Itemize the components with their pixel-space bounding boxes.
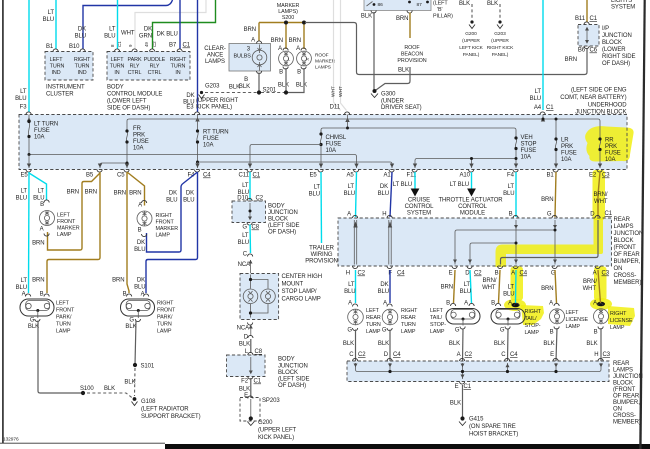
- svg-text:IN: IN: [114, 70, 119, 76]
- svg-text:DK: DK: [380, 282, 388, 288]
- svg-text:BRN: BRN: [67, 190, 79, 196]
- bottom chevrons: [353, 266, 601, 269]
- CHMSL internal wiring: [251, 275, 269, 318]
- fuse CHMSL: [320, 134, 321, 168]
- svg-text:LEFT: LEFT: [50, 57, 64, 63]
- svg-text:RIGHT: RIGHT: [156, 213, 173, 219]
- svg-text:PRK: PRK: [605, 144, 617, 150]
- wire BLK dashed to G203: [499, 4, 501, 19]
- svg-text:BLK: BLK: [124, 380, 135, 386]
- svg-text:FRONT: FRONT: [57, 219, 76, 225]
- left border bar: [2, 0, 4, 443]
- ground G200 bottom: [249, 416, 253, 420]
- svg-text:STOP-: STOP-: [525, 323, 541, 329]
- svg-text:BLU: BLU: [134, 285, 145, 291]
- highlight wire inside rear junction block: [496, 218, 604, 267]
- svg-text:BRN/: BRN/: [583, 279, 597, 285]
- svg-text:HOIST BRACKET): HOIST BRACKET): [469, 432, 518, 438]
- left tail/stop lamp: [430, 303, 480, 347]
- svg-text:G203: G203: [205, 84, 220, 90]
- svg-text:(LEFT: (LEFT: [433, 1, 448, 7]
- svg-text:DK: DK: [144, 27, 152, 33]
- svg-text:C4: C4: [397, 271, 405, 277]
- ground G203 left: [200, 91, 203, 94]
- svg-text:WHT: WHT: [338, 86, 344, 97]
- svg-text:G: G: [500, 328, 505, 334]
- svg-text:MEMBER): MEMBER): [613, 420, 641, 426]
- A4 drop to rail: [543, 115, 556, 140]
- svg-text:G203: G203: [494, 31, 506, 37]
- svg-text:G: G: [382, 328, 387, 334]
- svg-text:REAR: REAR: [401, 315, 416, 321]
- wire BLK dashed S101 to G108: [134, 368, 137, 396]
- svg-text:LT BLU: LT BLU: [450, 182, 469, 188]
- svg-text:(UPPER: (UPPER: [491, 38, 509, 44]
- svg-text:A: A: [549, 301, 553, 307]
- entry arrows: [27, 117, 31, 121]
- svg-text:LR: LR: [561, 138, 569, 144]
- svg-text:LEFT: LEFT: [566, 310, 580, 316]
- wire BRN/WHT B to right tail lamp B: [499, 270, 501, 303]
- svg-text:JUNCTION: JUNCTION: [268, 210, 298, 216]
- wire LT BLU E5(2) to trailer provision: [320, 172, 323, 243]
- svg-text:LAMP: LAMP: [430, 329, 445, 335]
- svg-text:BLU: BLU: [238, 240, 249, 246]
- svg-text:B5: B5: [86, 173, 94, 179]
- svg-text:F4: F4: [507, 173, 515, 179]
- svg-text:C11: C11: [239, 173, 250, 179]
- svg-text:UNDERHOOD: UNDERHOOD: [588, 103, 627, 109]
- svg-text:C4: C4: [510, 352, 518, 358]
- svg-text:E: E: [455, 384, 459, 390]
- svg-text:OF DASH): OF DASH): [602, 61, 630, 67]
- svg-text:BLK: BLK: [239, 84, 250, 90]
- svg-text:JUNCTION: JUNCTION: [278, 364, 308, 370]
- internal pass-through H to FC4: [389, 220, 391, 265]
- svg-text:C2: C2: [358, 352, 366, 358]
- svg-text:WHT: WHT: [331, 86, 337, 97]
- svg-text:FUSE: FUSE: [561, 151, 577, 157]
- svg-text:PARK/: PARK/: [56, 315, 72, 321]
- svg-text:TURN: TURN: [75, 64, 90, 70]
- svg-text:TAIL/: TAIL/: [430, 315, 443, 321]
- svg-text:LEFT: LEFT: [56, 301, 70, 307]
- internal pass-through A to HC2: [354, 220, 356, 265]
- svg-text:(LOWER: (LOWER: [602, 47, 626, 53]
- svg-text:G300: G300: [381, 92, 396, 98]
- rear lamps junction block upper fill: [338, 218, 612, 266]
- wire LT BLU F11 to cruise control: [414, 172, 416, 190]
- svg-text:(FRONT: (FRONT: [614, 245, 637, 251]
- svg-text:C1: C1: [590, 16, 598, 22]
- instrument cluster box: [45, 52, 93, 81]
- svg-text:A1: A1: [384, 173, 392, 179]
- svg-text:C2: C2: [465, 352, 473, 358]
- svg-text:D11: D11: [330, 105, 341, 111]
- pin label 49 C2 rotated: [144, 42, 149, 47]
- svg-text:A10: A10: [460, 173, 471, 179]
- svg-text:ON: ON: [613, 407, 622, 413]
- svg-text:GRN: GRN: [139, 34, 152, 40]
- svg-text:RIGHT: RIGHT: [74, 57, 91, 63]
- wire LT BLU to CHMSL: [249, 225, 252, 254]
- svg-text:10A: 10A: [133, 146, 144, 152]
- svg-text:LEFT: LEFT: [366, 308, 380, 314]
- wire BLK right rear turn to lower block: [389, 330, 391, 362]
- wire LT BLU to BCM pin 8: [117, 0, 119, 49]
- svg-text:10A: 10A: [521, 155, 532, 161]
- svg-text:D: D: [384, 352, 389, 358]
- roof beacon relay box fill: [364, 0, 431, 11]
- body control module box: [107, 52, 190, 81]
- svg-text:LAMP: LAMP: [57, 232, 72, 238]
- svg-text:B: B: [550, 330, 554, 336]
- svg-text:E5: E5: [21, 173, 29, 179]
- svg-text:BUMPER,: BUMPER,: [614, 259, 641, 265]
- svg-text:TRAILER: TRAILER: [309, 246, 335, 252]
- rear lamps junction block lower: [347, 361, 609, 382]
- svg-text:RIGHT: RIGHT: [401, 308, 418, 314]
- svg-text:BRN: BRN: [441, 285, 453, 291]
- underhood junction block dashed border: [19, 115, 627, 170]
- highlight wire E2C3 to rear block: [593, 170, 606, 220]
- svg-text:RIGHT: RIGHT: [525, 309, 542, 315]
- labels WHT rotated: [331, 86, 337, 97]
- svg-text:BLK: BLK: [449, 341, 460, 347]
- svg-text:BLK: BLK: [487, 1, 498, 7]
- roof beacon relay contents: [367, 2, 373, 7]
- top chevrons: [353, 215, 601, 218]
- left rear turn lamp: [343, 304, 381, 347]
- svg-text:(LEFT RADIATOR: (LEFT RADIATOR: [141, 407, 189, 413]
- svg-text:LAMP: LAMP: [525, 330, 540, 336]
- left license lamp: [543, 303, 588, 347]
- svg-text:C: C: [501, 352, 506, 358]
- internal exit arrows: [453, 260, 457, 264]
- svg-text:OF DASH): OF DASH): [278, 383, 306, 389]
- svg-text:RIGHT KICK: RIGHT KICK: [487, 45, 514, 51]
- body junction block 1: [232, 201, 266, 223]
- svg-text:LT BLU: LT BLU: [393, 182, 412, 188]
- svg-text:S101: S101: [141, 364, 155, 370]
- svg-text:SUPPORT BRACKET): SUPPORT BRACKET): [141, 414, 201, 420]
- svg-text:A: A: [593, 271, 597, 277]
- svg-text:C3: C3: [602, 271, 610, 277]
- svg-text:BRN: BRN: [396, 16, 408, 22]
- svg-text:A4: A4: [534, 105, 542, 111]
- svg-text:JUNCTION: JUNCTION: [614, 231, 644, 237]
- svg-text:(UNDER: (UNDER: [381, 99, 405, 105]
- left front park/turn lamp: [16, 278, 75, 335]
- svg-text:(LEFT SIDE: (LEFT SIDE: [268, 223, 300, 229]
- svg-text:BRN: BRN: [32, 241, 44, 247]
- svg-text:BLU: BLU: [503, 292, 514, 298]
- fuse LR PRK: [555, 139, 556, 168]
- svg-text:E2: E2: [589, 173, 597, 179]
- svg-text:MARKER: MARKER: [315, 59, 336, 65]
- svg-text:DK: DK: [169, 191, 177, 197]
- svg-text:BLU: BLU: [344, 289, 355, 295]
- svg-text:BLK: BLK: [459, 1, 470, 7]
- svg-text:B: B: [446, 301, 450, 307]
- internal rail y119 FR PRK to RR PRK: [127, 119, 600, 139]
- svg-text:WHT: WHT: [121, 31, 135, 37]
- svg-text:C1: C1: [546, 105, 554, 111]
- svg-text:10A: 10A: [561, 157, 572, 163]
- svg-text:G: G: [242, 225, 247, 231]
- svg-text:LAMPS: LAMPS: [613, 368, 633, 374]
- svg-text:E3: E3: [186, 105, 194, 111]
- fuse VEH STOP: [515, 138, 516, 168]
- svg-text:WIRING: WIRING: [311, 252, 333, 258]
- right tail/stop lamp: [491, 303, 542, 347]
- svg-text:49: 49: [144, 42, 149, 47]
- svg-text:S100: S100: [80, 386, 94, 392]
- svg-text:ROOF: ROOF: [315, 53, 329, 59]
- svg-text:LEFT: LEFT: [430, 308, 444, 314]
- svg-text:KICK PANEL): KICK PANEL): [196, 105, 232, 111]
- fuse RR PRK: [599, 139, 600, 168]
- highlight right tail lamp terminal blob: [504, 299, 526, 311]
- wire DK BLU FC4 to right rear turn lamp: [389, 270, 391, 303]
- svg-text:LT: LT: [508, 285, 515, 291]
- svg-text:C2: C2: [358, 271, 366, 277]
- svg-text:BLOCK: BLOCK: [278, 370, 298, 376]
- svg-text:E5: E5: [310, 173, 318, 179]
- svg-text:C: C: [243, 252, 248, 258]
- svg-text:LEFT KICK: LEFT KICK: [459, 45, 483, 51]
- svg-text:REAR: REAR: [366, 315, 381, 321]
- svg-text:NCA: NCA: [237, 326, 250, 332]
- svg-text:BLU: BLU: [166, 198, 177, 204]
- svg-text:REAR: REAR: [613, 361, 630, 367]
- svg-text:LT TURN: LT TURN: [34, 122, 58, 128]
- svg-text:PROVISION: PROVISION: [305, 259, 338, 265]
- svg-text:CARGO LAMP: CARGO LAMP: [282, 297, 321, 303]
- svg-text:ROOF: ROOF: [404, 45, 420, 51]
- svg-text:C6: C6: [590, 48, 598, 54]
- wire BRN C5 to right front park lamp B: [127, 172, 129, 293]
- wire BRN/WHT E2C3 to rear block D highlighted: [598, 172, 600, 217]
- bottom terminal chevrons: [26, 170, 602, 173]
- svg-text:DK: DK: [186, 93, 194, 99]
- svg-text:BRN/: BRN/: [594, 192, 608, 198]
- svg-text:A: A: [383, 301, 387, 307]
- svg-text:B: B: [594, 330, 598, 336]
- svg-text:DK BLU: DK BLU: [157, 32, 178, 38]
- svg-text:TURN: TURN: [56, 322, 71, 328]
- wire BLK left rear turn to lower block: [355, 330, 357, 362]
- wire DK BLU F4C4 to right front park lamp A: [146, 172, 198, 293]
- svg-text:CTRL: CTRL: [128, 70, 142, 76]
- svg-text:G: G: [30, 318, 35, 324]
- svg-text:TURN: TURN: [366, 322, 381, 328]
- svg-text:BLU: BLU: [503, 191, 514, 197]
- wire LT BLU to instrument cluster B1: [55, 0, 57, 49]
- svg-text:R: R: [306, 57, 309, 62]
- wire DK BLU to instrument cluster B10: [83, 0, 173, 49]
- svg-text:LT: LT: [348, 184, 355, 190]
- svg-text:DK: DK: [78, 27, 86, 33]
- wire LT BLU A5 to rear block A: [356, 172, 357, 217]
- svg-text:IND: IND: [51, 70, 60, 76]
- svg-text:S200: S200: [282, 15, 294, 21]
- svg-text:C3: C3: [603, 352, 611, 358]
- svg-text:C1: C1: [254, 379, 262, 385]
- arrow to throttle actuator control module: [467, 189, 476, 197]
- lower block top chevrons: [353, 358, 604, 361]
- svg-text:STOP-: STOP-: [430, 322, 446, 328]
- wire BLK to G415: [462, 385, 464, 417]
- svg-text:10A: 10A: [605, 157, 616, 163]
- svg-text:G415: G415: [469, 417, 484, 423]
- svg-text:BLK: BLK: [586, 341, 597, 347]
- 3 bulbs chevrons: [257, 41, 262, 74]
- svg-text:BODY: BODY: [278, 357, 295, 363]
- svg-text:MOUNT: MOUNT: [282, 282, 304, 288]
- svg-text:BUMPER,: BUMPER,: [613, 400, 640, 406]
- svg-text:RLY: RLY: [150, 64, 160, 70]
- svg-text:FUSE: FUSE: [605, 151, 621, 157]
- svg-text:F3: F3: [20, 105, 28, 111]
- bus2 RT TURN output to A1: [198, 162, 393, 168]
- svg-text:STOP LAMP/: STOP LAMP/: [282, 289, 317, 295]
- wire S200 to I/P junction block: [305, 23, 587, 75]
- svg-text:LAMP: LAMP: [401, 329, 416, 335]
- 3 bulbs box fill: [229, 44, 271, 72]
- svg-text:JUNCTION: JUNCTION: [613, 374, 643, 380]
- svg-text:DK: DK: [137, 278, 145, 284]
- wire LT BLU AC4 to right tail lamp A highlighted: [515, 270, 518, 303]
- svg-text:CONTROL: CONTROL: [405, 204, 435, 210]
- I/P junction block fill: [578, 25, 599, 47]
- wire BLK left front lamp to S100: [38, 321, 83, 394]
- wire DK BLU F4C4 to right front marker B: [147, 172, 198, 252]
- svg-text:BODY: BODY: [268, 204, 285, 210]
- svg-text:CENTER HIGH: CENTER HIGH: [282, 274, 322, 280]
- svg-text:BLK: BLK: [398, 68, 409, 74]
- wire BLK dashed to G200: [471, 4, 473, 19]
- svg-text:FRONT: FRONT: [157, 308, 176, 314]
- 3 bulbs bulb symbol: [252, 45, 267, 71]
- svg-text:LT: LT: [508, 184, 515, 190]
- center high mount stop lamp box: [240, 274, 279, 320]
- wire BLK dashed to G203 left: [205, 92, 284, 94]
- internal B column with branch to D: [470, 220, 516, 265]
- svg-text:LT: LT: [20, 89, 27, 95]
- svg-text:TURN: TURN: [157, 322, 172, 328]
- svg-text:BEACON: BEACON: [401, 52, 423, 58]
- svg-text:D: D: [590, 212, 595, 218]
- svg-text:(ON SPARE TIRE: (ON SPARE TIRE: [469, 424, 516, 430]
- svg-text:(FRONT: (FRONT: [613, 387, 636, 393]
- svg-text:A: A: [593, 301, 597, 307]
- body junction block 1 fill: [232, 201, 266, 223]
- wire LT BLU E5 to left front park lamp A: [28, 172, 31, 293]
- svg-text:BRN/: BRN/: [482, 278, 496, 284]
- highlight RR PRK FUSE: [585, 126, 633, 161]
- svg-text:86: 86: [378, 2, 384, 8]
- svg-text:LAMP: LAMP: [156, 233, 171, 239]
- svg-text:B10: B10: [69, 44, 80, 50]
- I/P junction block: [578, 25, 599, 47]
- wire LT BLU E5 branch to left front marker B: [29, 173, 47, 200]
- body junction block 2 fill: [227, 355, 266, 377]
- svg-text:C4: C4: [520, 271, 528, 277]
- svg-text:FUSE: FUSE: [133, 139, 149, 145]
- svg-text:LEFT: LEFT: [111, 57, 125, 63]
- svg-text:DK: DK: [380, 184, 388, 190]
- svg-text:BLOCK: BLOCK: [614, 238, 634, 244]
- svg-text:OF DASH): OF DASH): [268, 230, 296, 236]
- center high mount stop lamp box fill: [240, 274, 279, 320]
- internal entry arrows: [514, 225, 518, 229]
- svg-text:LAMP: LAMP: [56, 329, 71, 335]
- svg-text:G: G: [129, 318, 134, 324]
- lower block bottom chevron E C1: [460, 382, 465, 385]
- bottom black bar: [165, 444, 650, 449]
- svg-text:LT: LT: [348, 282, 355, 288]
- bus1 LT TURN output to A5: [29, 155, 357, 169]
- svg-text:BRN: BRN: [244, 27, 256, 33]
- svg-text:(UPPER: (UPPER: [462, 38, 480, 44]
- svg-text:BRN: BRN: [271, 38, 283, 44]
- svg-text:PUDDLE: PUDDLE: [144, 57, 166, 63]
- svg-text:FUSE: FUSE: [326, 142, 342, 148]
- svg-text:B7: B7: [169, 43, 177, 49]
- right front park/turn lamp: [112, 278, 176, 335]
- svg-text:BLK: BLK: [543, 341, 554, 347]
- svg-text:JUNCTION: JUNCTION: [602, 33, 632, 39]
- wire BRN B5 to left front marker A: [48, 173, 101, 250]
- svg-text:BLK: BLK: [239, 387, 250, 393]
- wire BLK 3 bulbs to S201: [258, 73, 260, 93]
- svg-text:RIGHT: RIGHT: [610, 311, 627, 317]
- top terminal chevrons F3 E3 D11 A4: [26, 112, 545, 115]
- svg-text:C3: C3: [602, 173, 610, 179]
- svg-text:LT: LT: [314, 185, 321, 191]
- svg-text:BLU: BLU: [75, 34, 86, 40]
- svg-text:RIGHT: RIGHT: [157, 301, 174, 307]
- svg-text:G: G: [347, 328, 352, 334]
- svg-text:WHT: WHT: [583, 286, 597, 292]
- instrument cluster terminal chevrons: [53, 49, 85, 52]
- svg-text:BLK: BLK: [296, 83, 307, 89]
- wire BLK to SP203: [250, 378, 252, 397]
- svg-text:10A: 10A: [203, 143, 214, 149]
- svg-text:B11: B11: [575, 16, 586, 22]
- svg-text:BLU: BLU: [16, 285, 27, 291]
- svg-text:E: E: [550, 352, 554, 358]
- svg-text:A: A: [508, 301, 512, 307]
- svg-text:BLK: BLK: [494, 341, 505, 347]
- wire BRN C5 branch to right front marker A: [127, 172, 145, 206]
- svg-text:CONTROL MODULE: CONTROL MODULE: [107, 92, 162, 98]
- svg-text:C1: C1: [183, 43, 191, 49]
- svg-text:IN: IN: [175, 70, 180, 76]
- roof marker lamp right: [296, 46, 312, 89]
- svg-text:PARK: PARK: [128, 57, 142, 63]
- svg-text:STOP: STOP: [521, 142, 537, 148]
- svg-text:87: 87: [417, 2, 423, 8]
- svg-text:OF REAR: OF REAR: [613, 394, 640, 400]
- svg-text:E: E: [449, 271, 453, 277]
- svg-text:RLY: RLY: [130, 64, 140, 70]
- rear lamps junction block upper: [338, 218, 612, 266]
- wire LT BLU F4 to rear block B: [515, 172, 517, 217]
- svg-text:FUSE: FUSE: [521, 148, 537, 154]
- svg-text:KICK PANEL): KICK PANEL): [258, 435, 294, 441]
